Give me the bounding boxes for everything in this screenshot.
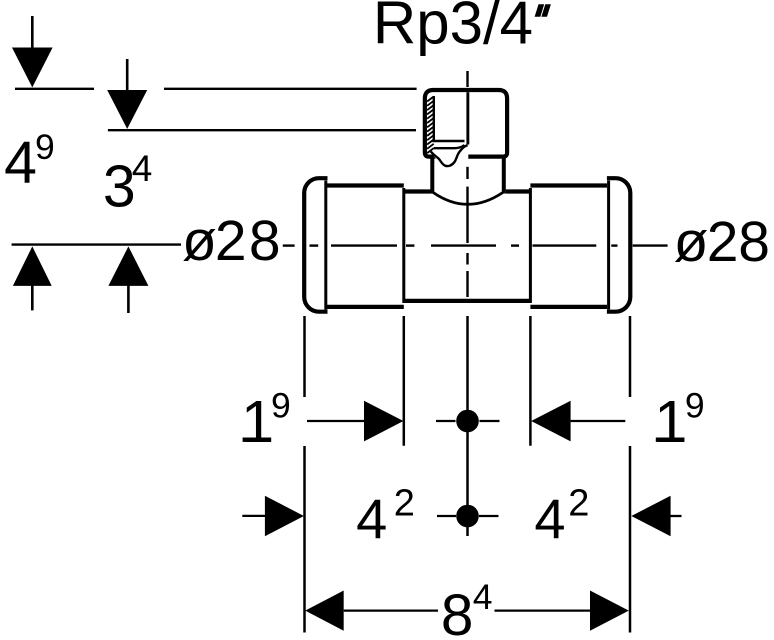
svg-text:8: 8 bbox=[441, 583, 474, 640]
svg-text:9: 9 bbox=[35, 127, 55, 167]
svg-text:3: 3 bbox=[103, 153, 136, 219]
svg-text:4: 4 bbox=[4, 130, 37, 196]
svg-text:Rp3/4: Rp3/4 bbox=[373, 0, 533, 57]
svg-text:4: 4 bbox=[356, 487, 387, 550]
svg-text:ø28: ø28 bbox=[182, 209, 281, 273]
svg-text:4: 4 bbox=[132, 148, 153, 189]
svg-text:1: 1 bbox=[241, 388, 274, 455]
svg-text:9: 9 bbox=[685, 385, 705, 425]
svg-text:1: 1 bbox=[654, 388, 687, 455]
svg-text:2: 2 bbox=[394, 483, 415, 525]
svg-text:ø28: ø28 bbox=[674, 210, 770, 274]
svg-text:2: 2 bbox=[568, 483, 589, 525]
svg-text:4: 4 bbox=[473, 577, 493, 617]
svg-text:4: 4 bbox=[534, 487, 565, 550]
svg-text:9: 9 bbox=[271, 385, 291, 425]
